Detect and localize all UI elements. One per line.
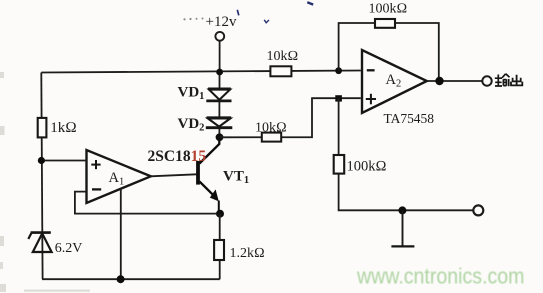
node emitter junction — [216, 210, 224, 218]
svg-text:+12v: +12v — [206, 14, 237, 30]
resistor 1k (box) — [38, 118, 47, 137]
node A2 plus junction (square) — [335, 95, 342, 101]
diode VD2 — [206, 118, 233, 128]
resistor 10k lower (box) — [262, 133, 281, 142]
ground — [402, 210, 404, 246]
svg-text:www.cntronics.com: www.cntronics.com — [356, 263, 524, 288]
wire from diode node to 10k lower — [220, 98, 361, 137]
wire 100k right branch — [339, 98, 474, 210]
resistor 10k upper (box) — [270, 66, 291, 76]
scan artifact edge smudges — [0, 72, 90, 292]
wire emitter to bottom rail — [219, 214, 221, 280]
wire A1 output to base — [151, 174, 197, 176]
diode VD1 — [206, 89, 231, 101]
svg-text:10kΩ: 10kΩ — [255, 121, 287, 136]
node lower terminal — [473, 205, 483, 215]
svg-text:TA75458: TA75458 — [384, 111, 435, 126]
wire bottom rail — [42, 278, 220, 280]
wire A1 plus input — [41, 160, 86, 162]
node +12V terminal — [215, 32, 224, 41]
wire +12V stem — [219, 41, 221, 72]
wire feedback loop — [339, 23, 439, 81]
svg-text:100kΩ: 100kΩ — [347, 158, 387, 174]
scan artifact blue ticks — [237, 10, 239, 16]
node output terminal — [482, 76, 491, 85]
svg-text:1.2kΩ: 1.2kΩ — [230, 246, 265, 261]
transistor VT1 — [198, 138, 219, 214]
wire A1 supply down — [120, 188, 122, 279]
resistor 1.2k (box) — [214, 240, 224, 260]
resistor 100k feedback (box) — [375, 19, 395, 28]
label output (Chinese) — [495, 74, 510, 87]
svg-text:1kΩ: 1kΩ — [50, 120, 77, 136]
svg-text:10kΩ: 10kΩ — [267, 49, 299, 64]
wire left rail — [41, 73, 42, 280]
wire diode string — [219, 72, 221, 90]
wire top rail — [41, 71, 361, 73]
node bottom rail junction — [117, 275, 125, 283]
node output junction — [435, 77, 443, 85]
wire A2 output — [427, 80, 483, 82]
node A2 minus junction — [335, 67, 342, 74]
scan artifact dots left of +12v — [183, 18, 203, 21]
svg-text:6.2V: 6.2V — [55, 241, 83, 256]
svg-text:100kΩ: 100kΩ — [369, 1, 408, 16]
op-amp A2 — [362, 50, 427, 113]
wire A1 minus loop — [75, 192, 220, 214]
svg-text:2SC1815: 2SC1815 — [148, 148, 207, 165]
junction dot on top rail at +12V — [216, 69, 223, 76]
zener diode 6.2V — [28, 233, 51, 252]
op-amp A1 — [87, 150, 151, 203]
resistor 100k right (box) — [334, 155, 345, 174]
node left rail junction — [38, 157, 45, 164]
node ground junction — [398, 206, 406, 214]
node diode-collector junction — [216, 133, 224, 141]
